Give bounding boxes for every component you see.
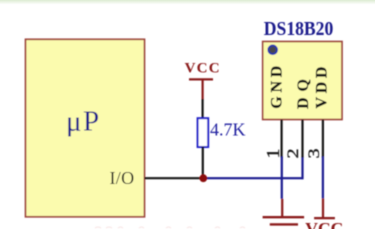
svg-text:VDD: VDD	[314, 67, 331, 109]
pin 1 stub	[281, 120, 283, 158]
microprocessor block U? (sheet symbol)	[26, 39, 145, 217]
pin 2 stub	[301, 120, 303, 158]
wire pin1 to ground (blue)	[281, 157, 283, 199]
wire junction to DQ pin (blue)	[203, 177, 302, 179]
DS18B20 body U1	[263, 42, 342, 120]
svg-text:DS18B20: DS18B20	[264, 18, 334, 40]
svg-text:I/O: I/O	[110, 168, 135, 188]
junction dot	[199, 174, 207, 182]
ground bar 1	[263, 216, 305, 218]
svg-text:3: 3	[305, 148, 322, 158]
power port VCC (bottom) stub (red)	[322, 198, 324, 218]
page top border band	[0, 0, 375, 5]
pin-1 marker dot	[268, 46, 277, 55]
wire I/O to junction (black)	[145, 177, 204, 179]
ground bar 2	[270, 223, 298, 225]
VCC bottom bar	[314, 217, 335, 219]
svg-text:VCC: VCC	[305, 219, 343, 229]
wire resistor to junction (black)	[202, 147, 204, 178]
svg-text:4.7K: 4.7K	[210, 120, 246, 140]
ground symbol stub (red)	[281, 199, 283, 217]
svg-text:2: 2	[284, 148, 301, 158]
svg-text:GND: GND	[268, 66, 285, 109]
pin 3 stub	[322, 120, 324, 158]
wire VCC to resistor (black)	[202, 99, 204, 119]
resistor R1 body	[198, 118, 209, 147]
faint cropped caption marks at bottom edge	[95, 227, 245, 228]
svg-text:μP: μP	[66, 106, 100, 138]
wire pin3 to VCC (blue)	[322, 157, 324, 199]
svg-text:VCC: VCC	[185, 60, 221, 76]
